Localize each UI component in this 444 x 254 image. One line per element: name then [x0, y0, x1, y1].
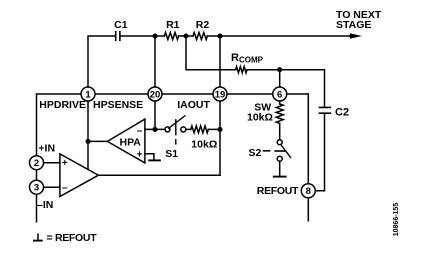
svg-text:–: –	[137, 125, 143, 136]
wire: dot to pin 20	[154, 36, 156, 129]
svg-text:+: +	[137, 149, 143, 160]
resistor R1	[164, 33, 178, 40]
wire: S1 to 10k resistor	[186, 128, 191, 130]
resistor RCOMP	[236, 67, 247, 73]
wire: R1 to R2	[179, 35, 193, 37]
ground: refout symbol at HPA plus	[149, 159, 160, 161]
wire: pin 2 to in-amp plus	[37, 162, 60, 164]
pin 8	[301, 184, 315, 198]
svg-text:S1: S1	[165, 148, 178, 160]
wire: R2 to arrow	[207, 35, 351, 37]
svg-text:HPSENSE: HPSENSE	[93, 99, 143, 111]
capacitor C1	[116, 32, 120, 41]
switch S1 blade	[169, 116, 185, 128]
node: junction dot on minus line	[152, 127, 157, 132]
switch S2 label dash	[264, 150, 270, 152]
svg-text:–: –	[62, 183, 68, 194]
switch S1 contact right	[181, 127, 186, 132]
wire: dot to pin 6	[279, 70, 281, 104]
svg-text:10kΩ: 10kΩ	[247, 112, 273, 124]
pin 6	[273, 87, 287, 101]
IC boundary: right edge through pin 8	[307, 94, 309, 221]
wire: node to HPA apex	[88, 140, 107, 142]
node: junction dot on pin19 vertical	[217, 127, 222, 132]
wire: C1 to R1	[120, 35, 164, 37]
capacitor C2	[320, 107, 331, 113]
IC boundary: top edge	[37, 93, 309, 95]
svg-text:S2: S2	[249, 147, 262, 159]
node: junction dot at R2 right	[217, 33, 222, 38]
wire: dot down to Rcomp line	[186, 36, 236, 70]
svg-text:+: +	[62, 158, 68, 169]
svg-text:REFOUT: REFOUT	[257, 185, 299, 197]
switch S2 contact dash	[275, 150, 285, 152]
wire: dot down to pin 19	[219, 36, 221, 175]
svg-text:+IN: +IN	[38, 143, 55, 155]
pin 1	[81, 87, 95, 101]
node: junction dot at R1 left	[152, 33, 157, 38]
wire: SW resistor to S2	[279, 123, 281, 139]
resistor R2	[193, 33, 207, 40]
svg-text:3: 3	[34, 183, 39, 194]
switch S2 contact top	[277, 140, 282, 145]
svg-text:–IN: –IN	[37, 199, 53, 211]
switch S2 blade	[281, 145, 291, 158]
svg-text:20: 20	[150, 89, 161, 100]
arrow to next stage	[350, 33, 362, 39]
node: junction dot HPDRIVE/HPA output	[85, 139, 90, 144]
svg-text:R1: R1	[166, 19, 180, 31]
svg-text:R2: R2	[196, 19, 210, 31]
pin 3	[30, 180, 44, 194]
wire: HPA minus input line	[145, 128, 165, 130]
svg-text:10kΩ: 10kΩ	[191, 139, 217, 151]
switch S2 contact bottom	[277, 156, 282, 161]
switch S1 contact left	[165, 127, 170, 132]
svg-text:10866-155: 10866-155	[393, 203, 400, 237]
op-amp in-amp (points right)	[60, 154, 99, 197]
resistor SW 10k	[276, 104, 283, 123]
svg-text:IAOUT: IAOUT	[177, 99, 210, 111]
wire: S2 to refout symbol	[279, 161, 281, 176]
op-amp HPA (points left)	[107, 119, 144, 163]
wire: 10k to pin19 vertical	[208, 128, 220, 130]
ground: refout symbol below S2	[274, 176, 286, 178]
svg-text:6: 6	[277, 89, 282, 100]
svg-text:1: 1	[85, 89, 91, 100]
svg-text:= REFOUT: = REFOUT	[47, 232, 98, 244]
svg-text:C1: C1	[114, 19, 128, 31]
ground: legend refout symbol	[33, 233, 43, 240]
resistor 10k (feedback)	[191, 126, 209, 133]
wire: in-amp output to pin19 vertical	[98, 174, 220, 176]
pin 20	[148, 87, 162, 101]
svg-text:19: 19	[215, 89, 226, 100]
wire: C2 down and into pin 8	[308, 113, 324, 190]
wire: HPA plus input to refout symbol	[145, 154, 154, 160]
node: junction dot above pin 6	[277, 67, 282, 72]
svg-text:RCOMP: RCOMP	[231, 52, 264, 65]
svg-text:STAGE: STAGE	[336, 19, 371, 31]
pin 2	[30, 156, 44, 170]
pin 19	[213, 87, 227, 101]
wire: Rcomp to C2 corner	[247, 70, 325, 107]
switch S1 control dash	[175, 120, 177, 144]
wire: pin1 up to top rail	[88, 36, 115, 169]
IC boundary: left edge through pins 2,3	[36, 94, 38, 222]
svg-text:HPA: HPA	[120, 137, 142, 149]
svg-text:HPDRIVE: HPDRIVE	[39, 99, 86, 111]
svg-text:2: 2	[34, 158, 39, 169]
wire: pin 3 to in-amp minus	[37, 186, 60, 188]
svg-text:8: 8	[306, 186, 311, 197]
svg-text:C2: C2	[335, 106, 349, 118]
node: junction dot between R1 and R2	[183, 33, 188, 38]
